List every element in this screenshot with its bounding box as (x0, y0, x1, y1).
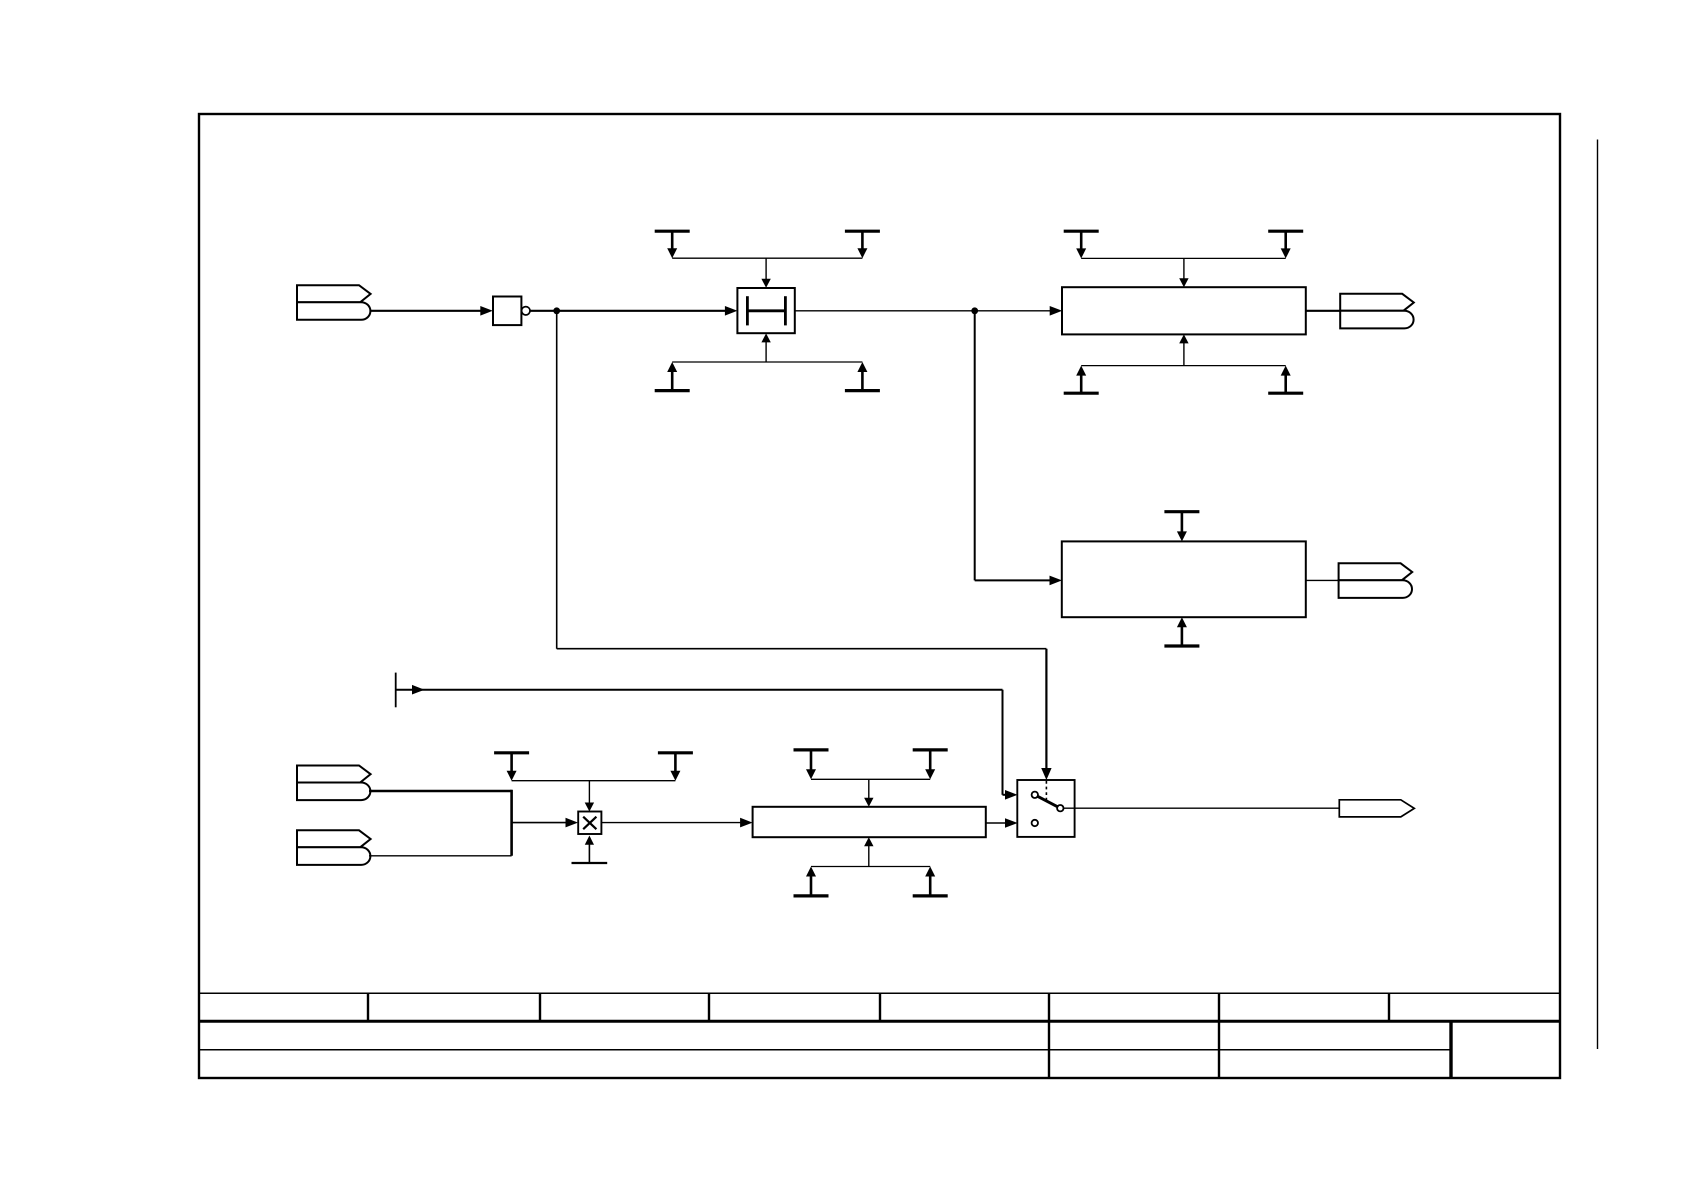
node B (junction) (971, 307, 978, 314)
wire: join to multiplier (512, 818, 578, 828)
wire: node B down to block U4 (975, 311, 1062, 585)
parameter line above U2 (672, 258, 862, 288)
wire: inverter to smoothing block (530, 306, 737, 316)
parameter T15 (above U6, right) (913, 750, 948, 779)
input connector X3 (lower left, lower) (297, 830, 371, 865)
output connector Y3 (lower right) (1339, 800, 1414, 817)
off-page signal source (terminator bar) (395, 673, 397, 708)
wire: switch to output connector Y3 (1064, 807, 1341, 809)
function block U4 (middle right) (1062, 541, 1306, 617)
wire: U5 to block U6 (601, 818, 752, 828)
changeover switch S1 (1017, 780, 1074, 837)
parameter T5 (above U3, left) (1064, 231, 1099, 258)
wire: join bracket (510, 790, 513, 856)
drawing border frame (199, 114, 1560, 1078)
wire: U4 to output connector Y2 (1306, 579, 1340, 581)
function block U6 (long, lower middle) (753, 807, 986, 837)
inverter U1 (493, 297, 530, 326)
parameter T3 (below U2, left) (655, 362, 690, 391)
parameter T4 (below U2, right) (845, 362, 880, 391)
parameter T16 (below U6, left) (794, 867, 829, 896)
parameter line above U3 (1081, 258, 1286, 287)
parameter T14 (above U6, left) (794, 750, 829, 779)
parameter T7 (below U3, left) (1064, 366, 1099, 394)
parameter line above U6 (811, 779, 930, 807)
wire: U6 to switch input 2 (986, 818, 1018, 828)
parameter T6 (above U3, right) (1268, 231, 1303, 258)
node A (junction) (553, 307, 560, 314)
parameter p-set T1 (above U2, left) (655, 231, 690, 258)
parameter T8 (below U3, right) (1268, 366, 1303, 394)
wire: X1 to inverter (370, 306, 493, 316)
title block (199, 993, 1560, 1078)
parameter T11 (above U5, left) (494, 753, 529, 781)
multiplier U5 (X symbol) (578, 812, 601, 835)
smoothing element U2 (H symbol block) (737, 288, 794, 333)
input connector X1 (top left) (297, 285, 371, 320)
parameter T12 (above U5, right) (658, 753, 693, 781)
parameter line below U2 (672, 333, 862, 362)
wire: off-page signal to switch input 1 (396, 685, 1018, 800)
parameter p-set T2 (above U2, right) (845, 231, 880, 258)
wire: X2 to join (369, 790, 512, 793)
wire: U3 to output connector Y1 (1306, 310, 1341, 312)
output connector Y1 (top right) (1340, 294, 1414, 329)
wire: node A to switch control input (557, 311, 1052, 780)
input connector X2 (lower left, upper) (297, 766, 371, 801)
parameter T17 (below U6, right) (913, 867, 948, 896)
parameter T10 (below U4) (1164, 617, 1199, 646)
parameter line above U5 (512, 781, 676, 812)
wire: X3 to join (369, 855, 512, 857)
parameter line below U6 (811, 837, 930, 866)
wire: U2 output to block U3 (795, 306, 1062, 316)
fold mark line (right margin) (1597, 140, 1599, 1050)
parameter line below U3 (1081, 334, 1286, 365)
function block U3 (top right) (1062, 287, 1306, 334)
output connector Y2 (middle right) (1339, 563, 1413, 598)
parameter T13 (below U5) (572, 836, 608, 864)
parameter T9 (above U4) (1164, 512, 1199, 542)
